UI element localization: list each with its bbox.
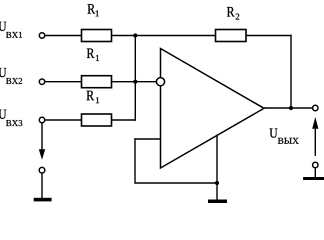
label UBX2 (0, 68, 6, 77)
resistor R1 (input 1) (82, 30, 112, 42)
wire (290, 35, 292, 108)
junction output node (289, 106, 293, 110)
label R1 (88, 4, 96, 13)
label UBX3 subscript (6, 120, 22, 126)
label R2 (227, 7, 235, 16)
wire (45, 81, 82, 83)
wire summing bus (134, 36, 136, 121)
ground (op-amp) (208, 200, 227, 204)
wire (112, 81, 157, 83)
wire UBX3 source stem (41, 123, 43, 152)
op-amp U1 (161, 49, 265, 169)
node lower terminal (output side) (313, 162, 318, 167)
label R2 subscript 2 (236, 14, 240, 20)
arrow UBX3 voltage direction (down) (39, 149, 45, 159)
label UBX1 (0, 22, 6, 31)
wire arrow shaft (314, 128, 316, 157)
wire (45, 35, 82, 37)
junction ground node (215, 181, 219, 185)
label R1 subscript 1 (96, 55, 99, 61)
node UBX1 input terminal (39, 33, 44, 38)
wire non-inverting input (134, 138, 160, 140)
label UBbIX (270, 128, 278, 137)
label UBX3 (0, 110, 6, 119)
label R1 subscript 1 (96, 10, 99, 16)
node UBX3 input terminal (39, 117, 44, 122)
resistor R1 (input 2) (82, 76, 112, 88)
wire (112, 119, 137, 121)
node UBX2 input terminal (39, 79, 44, 84)
wire (314, 168, 316, 178)
junction node (row 2) (133, 80, 137, 84)
resistor R2 (216, 30, 247, 42)
wire (246, 35, 292, 37)
label UBbIX subscript (278, 138, 299, 144)
wire (45, 119, 82, 121)
arrow UBbIX voltage direction (up) (312, 117, 318, 129)
ground (output side) (303, 177, 324, 180)
wire (134, 138, 136, 183)
wire (112, 35, 216, 37)
resistor R1 (input 3) (82, 114, 112, 126)
label R1 (87, 49, 95, 58)
op-amp inverting input bubble (156, 78, 164, 86)
ground (input side) (34, 198, 52, 202)
label R1 (87, 91, 95, 100)
node lower terminal (input side) (39, 167, 45, 173)
label UBX2 subscript (6, 78, 22, 84)
node UBbIX output terminal (313, 105, 318, 110)
wire (41, 173, 43, 198)
junction summing node (row 1) (133, 33, 137, 37)
wire (135, 182, 217, 184)
wire output (264, 107, 313, 109)
label UBX1 subscript (6, 32, 22, 38)
label R1 subscript 1 (96, 97, 99, 103)
wire op-amp ground pin (216, 135, 218, 200)
